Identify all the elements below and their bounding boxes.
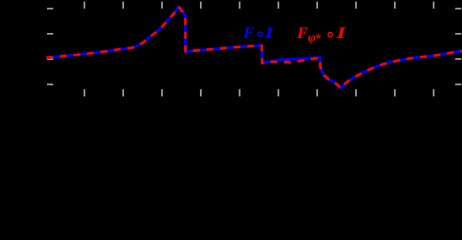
svg-text:I: I: [264, 25, 274, 43]
svg-text:F: F: [296, 25, 308, 42]
svg-text:F: F: [243, 25, 255, 42]
svg-text:*: *: [315, 31, 322, 45]
svg-text:I: I: [335, 24, 347, 42]
